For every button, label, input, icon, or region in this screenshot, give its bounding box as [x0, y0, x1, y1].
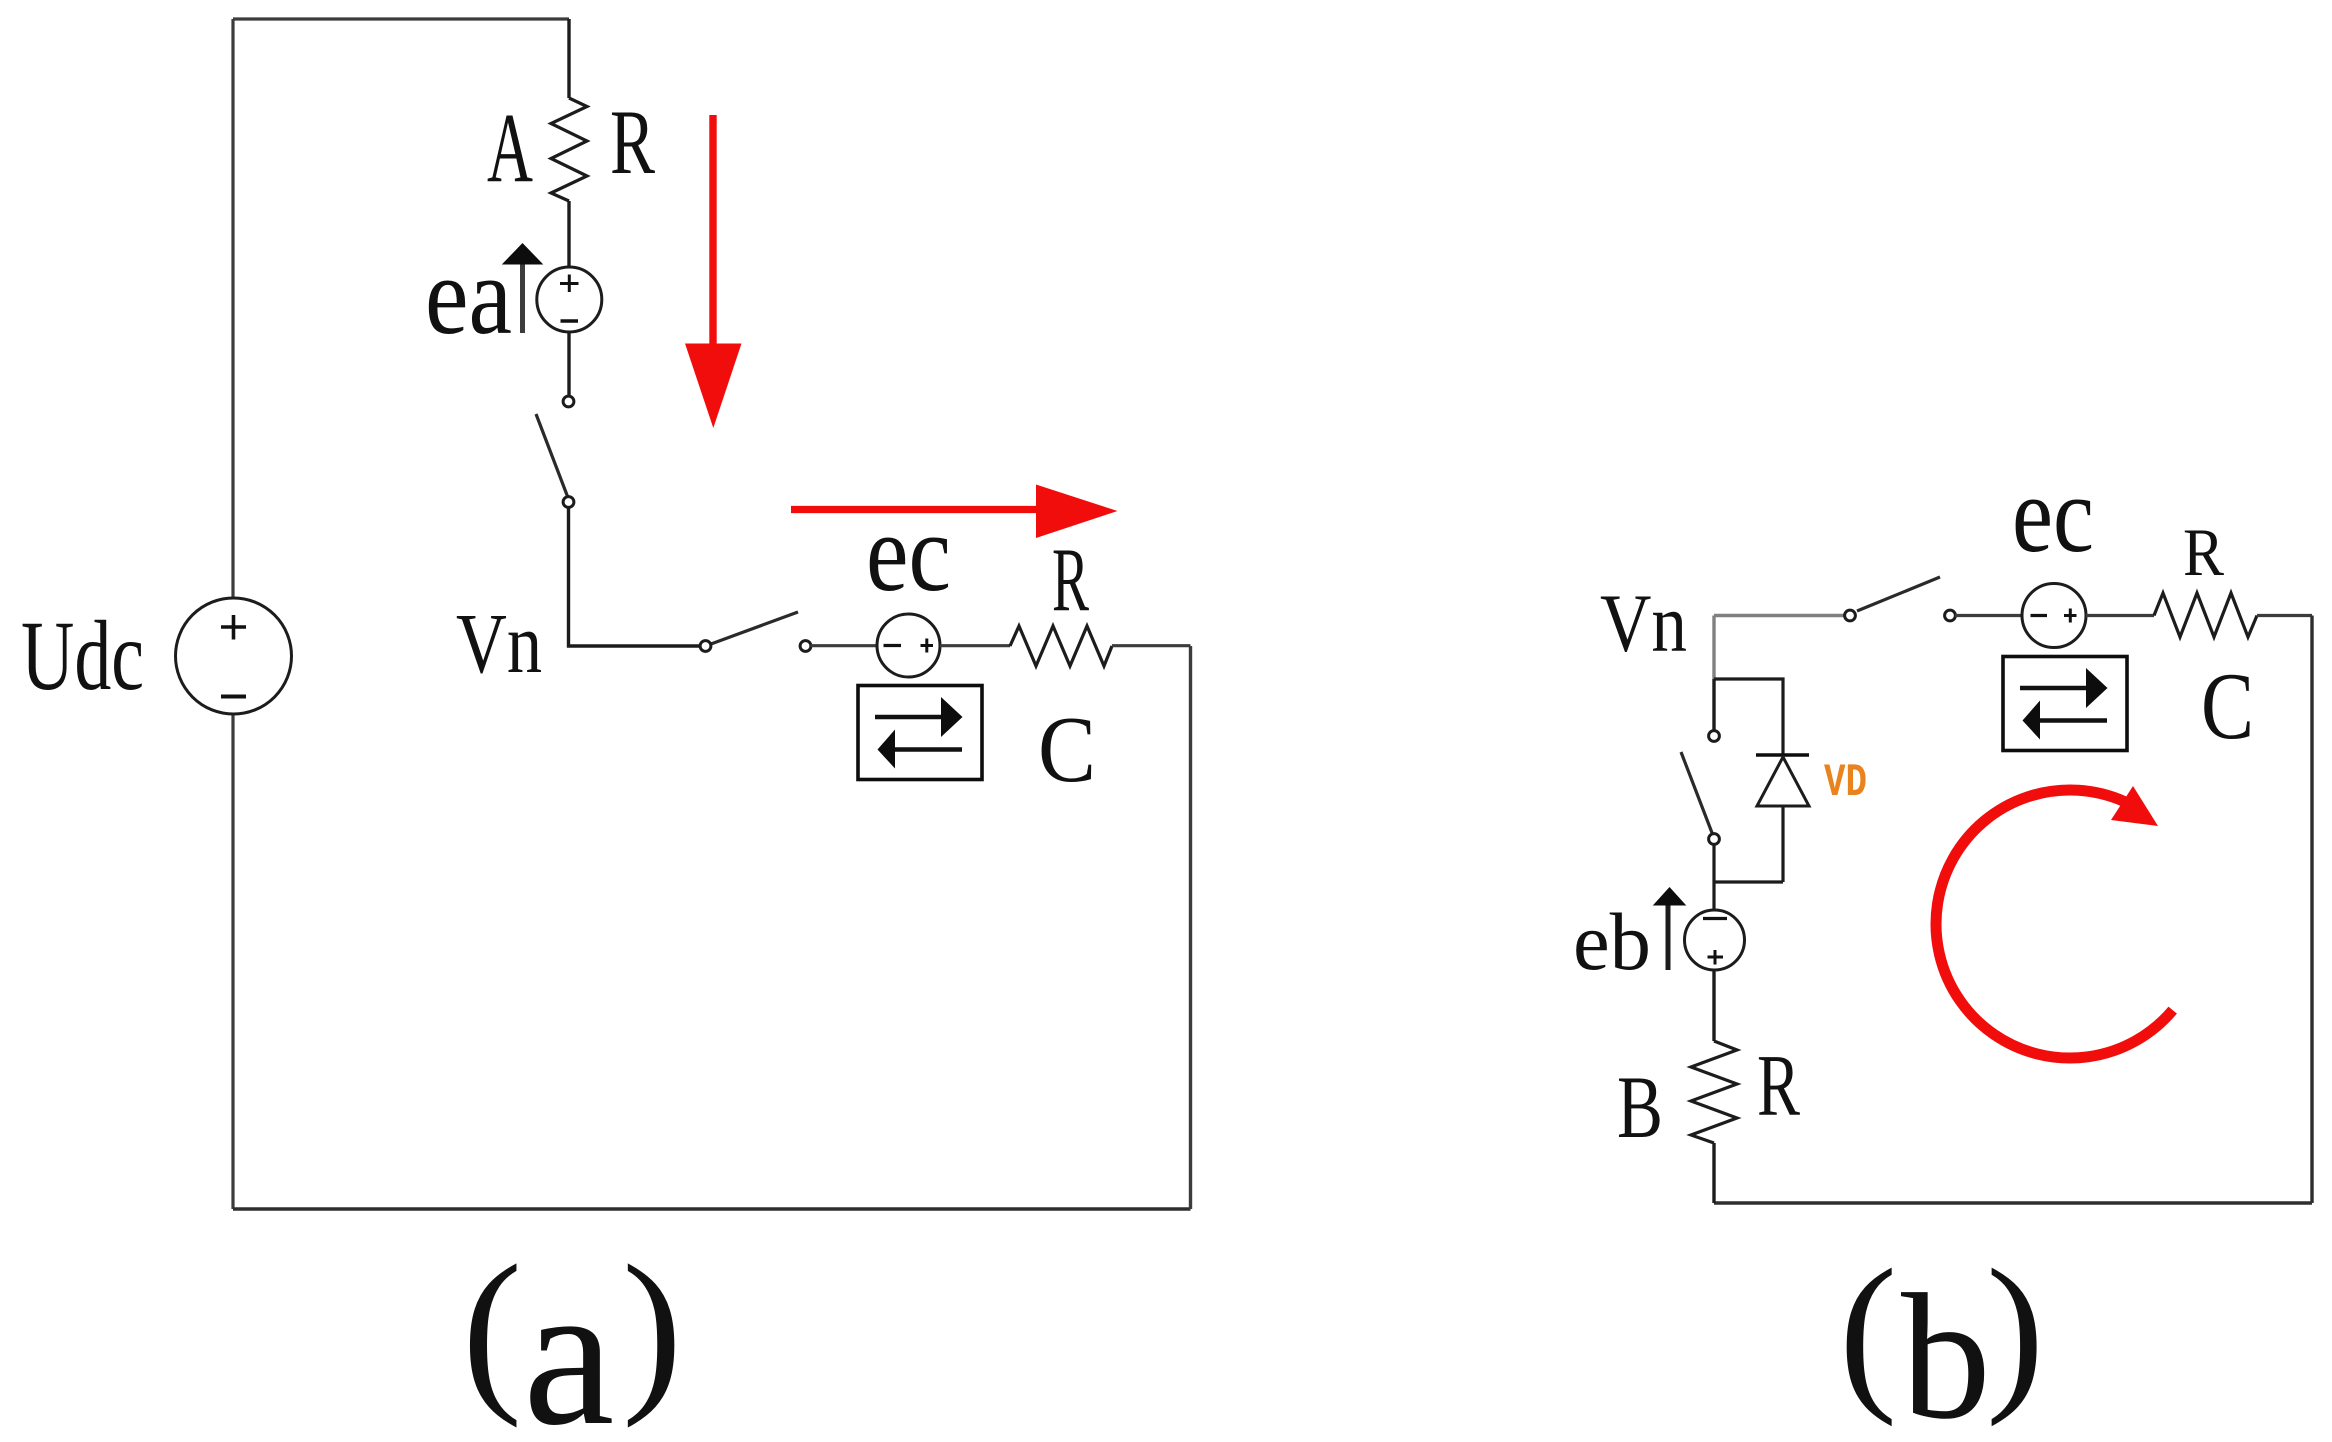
- voltage source ea (circle): [537, 267, 602, 332]
- minus mark inside ec (a): [884, 644, 902, 647]
- red arc arrowhead: [2111, 786, 2158, 826]
- svg-text:ea: ea: [425, 235, 512, 358]
- svg-text:A: A: [487, 92, 533, 203]
- wire: ec to resistor R (a): [940, 644, 1010, 647]
- wire: Vn node to switch (b top): [1714, 614, 1845, 617]
- svg-text:a: a: [523, 1239, 614, 1442]
- resistor R of phase B (vertical zigzag): [1691, 1041, 1737, 1143]
- svg-text:R: R: [1757, 1038, 1800, 1135]
- minus mark inside ec (b): [2031, 614, 2048, 617]
- plus mark inside ea: [560, 275, 579, 293]
- right-pointing arrow inside box (a): [875, 715, 941, 719]
- svg-text:C: C: [2201, 653, 2254, 759]
- svg-text:VD: VD: [1824, 757, 1867, 809]
- wire: bottom side of loop (a): [233, 1207, 1191, 1210]
- svg-text:R: R: [2183, 514, 2225, 590]
- minus mark inside Udc: [221, 695, 246, 699]
- wire: diode anode down to lower branch: [1781, 806, 1784, 882]
- svg-text:B: B: [1617, 1059, 1663, 1157]
- svg-text:Vn: Vn: [456, 595, 542, 691]
- left-pointing arrow inside box (b): [2040, 718, 2107, 722]
- node: switch SC right terminal: [800, 641, 811, 652]
- resistor R (horizontal zigzag, b): [2154, 593, 2257, 637]
- node: b-top switch right terminal: [1945, 610, 1956, 621]
- svg-text:eb: eb: [1573, 896, 1651, 987]
- wire: switch down to node Vn and right: [569, 507, 700, 646]
- wire: resistor to source ea: [567, 201, 570, 268]
- svg-text:): ): [622, 1229, 682, 1429]
- wire: right side of loop (a): [1189, 646, 1192, 1209]
- wire: junction down to switch (b left): [1712, 679, 1715, 731]
- arrow beside ea (black up arrow): [520, 263, 525, 333]
- svg-text:R: R: [610, 91, 655, 193]
- wire: from top wire down to resistor R(A): [567, 19, 570, 98]
- wire: top side of loop (a): [233, 17, 569, 20]
- svg-text:(: (: [1839, 1233, 1897, 1427]
- wire: ec to resistor R (b): [2086, 614, 2154, 617]
- wire: resistor to right side (b): [2257, 614, 2312, 617]
- wire: bottom side of loop (b): [1714, 1201, 2312, 1204]
- resistor R (horizontal zigzag, a): [1010, 626, 1112, 666]
- plus mark inside ec (a): [921, 639, 934, 653]
- node: switch SA bottom terminal: [563, 497, 574, 508]
- plus mark inside ec (b): [2064, 609, 2077, 623]
- wire: junction to diode branch (b): [1714, 679, 1783, 755]
- capacitor/bidirectional box C (b): [2003, 657, 2127, 751]
- svg-text:C: C: [1038, 698, 1096, 802]
- red arrow: loop current (rightward): [791, 506, 1038, 513]
- wire: resistor R to right side of loop: [1112, 644, 1191, 647]
- node: b-left switch bottom terminal: [1709, 834, 1720, 845]
- svg-text:ec: ec: [2012, 454, 2094, 575]
- svg-text:Udc: Udc: [21, 600, 144, 711]
- svg-text:ec: ec: [866, 492, 951, 615]
- voltage source ec (circle, a): [877, 614, 940, 677]
- plus mark inside Udc: [221, 615, 246, 640]
- wire: resistor B to bottom of loop: [1712, 1143, 1715, 1203]
- svg-text:Vn: Vn: [1600, 577, 1687, 669]
- red arrow: phase A current (downward): [709, 115, 716, 345]
- switch SA blade: [536, 414, 569, 499]
- wire: ea to switch node: [567, 332, 570, 396]
- wire: eb to resistor R(B): [1712, 970, 1715, 1041]
- switch SC blade: [706, 612, 799, 646]
- diode VD triangle: [1757, 757, 1809, 806]
- voltage source eb (circle): [1685, 910, 1745, 970]
- node: switch SA top terminal: [563, 396, 574, 407]
- capacitor/bidirectional box C (a): [858, 686, 982, 780]
- wire: left side of loop (a): [231, 19, 234, 1209]
- arrow beside eb (black up arrow): [1666, 900, 1671, 970]
- svg-text:(: (: [462, 1229, 522, 1429]
- switch blade (b left): [1681, 752, 1714, 838]
- wire: switch to source ec: [811, 644, 878, 647]
- node: b-left switch top terminal: [1709, 731, 1720, 742]
- resistor R of phase A (vertical zigzag): [551, 98, 587, 201]
- voltage source Udc (circle): [176, 598, 292, 714]
- left-pointing arrow inside box (a): [895, 747, 962, 751]
- wire: Vn corner down to junction (b): [1712, 616, 1715, 680]
- red circulating-current arc (b): [1936, 790, 2173, 1058]
- svg-text:): ): [1986, 1233, 2044, 1427]
- plus mark inside eb: [1708, 950, 1724, 965]
- switch blade (b top): [1857, 577, 1940, 611]
- svg-text:R: R: [1052, 529, 1089, 630]
- right-pointing arrow inside box (b): [2020, 686, 2086, 690]
- minus mark inside eb: [1703, 917, 1727, 920]
- svg-text:b: b: [1901, 1257, 1991, 1442]
- node: b-top switch left terminal: [1845, 610, 1856, 621]
- wire: switch to eb, with diode return branch: [1714, 844, 1783, 910]
- wire: right side of loop (b): [2310, 616, 2313, 1204]
- minus mark inside ea: [561, 319, 579, 323]
- voltage source ec (circle, b): [2022, 584, 2086, 648]
- diode VD cathode bar: [1756, 753, 1809, 757]
- node: switch SC left terminal: [700, 641, 711, 652]
- wire: switch to source ec (b): [1955, 614, 2022, 617]
